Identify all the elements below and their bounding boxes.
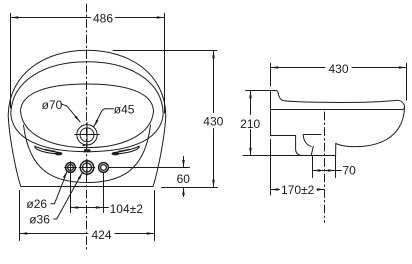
arrow 210 top	[249, 91, 252, 99]
side view belly curve	[336, 107, 405, 147]
svg-text:ø45: ø45	[114, 103, 135, 117]
leader ø45	[94, 109, 114, 127]
bowl rim outer oval	[11, 62, 163, 152]
dim 60 arrow tails	[183, 157, 185, 197]
arrow 104 left	[71, 206, 79, 209]
leader ø36	[54, 172, 83, 219]
dim 170 ext left	[270, 140, 272, 196]
arrows	[11, 16, 407, 235]
svg-text:104±2: 104±2	[110, 202, 144, 216]
leader ø26	[51, 171, 67, 204]
arrow 430 side right	[399, 66, 407, 69]
svg-text:430: 430	[328, 62, 348, 76]
arrow 486 left	[11, 16, 19, 19]
arrow 104 right	[96, 206, 104, 209]
dim 70 ext lines	[313, 156, 336, 178]
drain outer circle ø70	[77, 125, 97, 145]
arrow leader ø26	[63, 171, 67, 178]
overflow trapezoid mark	[83, 149, 91, 152]
arrow 486 right	[157, 16, 165, 19]
svg-text:ø26: ø26	[26, 197, 47, 211]
centerline side view	[324, 112, 326, 223]
side view top step and rim	[271, 91, 405, 107]
dim 424 ext lines	[20, 191, 155, 241]
dim 430 side ext left	[270, 63, 272, 86]
dim 486 extension right	[164, 13, 166, 113]
leader ø70	[61, 104, 80, 122]
arrow 424 left	[20, 232, 28, 235]
bowl rim inner oval	[21, 84, 154, 148]
small triangle mark	[82, 144, 85, 146]
left soap crescent	[35, 146, 60, 153]
faucet hole left	[66, 163, 76, 173]
arrow 430 front top	[212, 51, 215, 59]
dimension texts	[26, 11, 356, 242]
arrow 430 side left	[271, 66, 279, 69]
svg-text:70: 70	[342, 164, 356, 178]
dim 104 line	[71, 207, 109, 209]
pipe bottom	[311, 155, 336, 157]
dim 170 line	[271, 189, 325, 191]
dim 430 side ext right	[406, 63, 408, 100]
svg-text:ø36: ø36	[29, 212, 50, 226]
dim 104 ext lines	[71, 173, 104, 213]
side view left wall	[270, 91, 272, 136]
svg-text:170±2: 170±2	[281, 183, 315, 197]
apron front curve	[24, 125, 151, 183]
arrow 210 bottom	[249, 148, 252, 156]
dim 430 front ext bottom	[161, 187, 217, 189]
centerline front view	[86, 4, 88, 252]
arrow 430 front bottom	[212, 180, 215, 188]
svg-text:424: 424	[91, 228, 111, 242]
dim 430 front line	[213, 51, 215, 188]
dim 210 ext top	[246, 90, 270, 92]
svg-text:60: 60	[177, 172, 191, 186]
arrow leader ø36	[78, 172, 83, 179]
arrow 70 left	[313, 169, 321, 172]
dim 60 ext top (leader from right hole)	[109, 167, 190, 169]
dim 486 extension left	[10, 13, 12, 108]
svg-text:486: 486	[93, 11, 113, 25]
svg-text:430: 430	[203, 115, 223, 129]
drain pipe	[311, 143, 336, 155]
dim 210 ext bottom	[243, 155, 311, 157]
arrow 170 left	[271, 188, 279, 191]
svg-text:ø70: ø70	[42, 98, 63, 112]
trap outer shoulder	[296, 136, 311, 156]
arrow 60 top	[182, 160, 185, 168]
side view wall bottom	[271, 135, 296, 137]
arrow leader ø45	[94, 120, 99, 127]
dim 430 side line	[271, 67, 407, 69]
faucet hole right	[99, 163, 109, 173]
arrow leader ø70	[75, 116, 81, 123]
dim 424 line	[20, 233, 155, 235]
right soap crescent	[114, 146, 139, 153]
faucet hole center	[80, 161, 93, 174]
arrow 170 right	[317, 188, 325, 191]
dim 430 front ext top	[113, 50, 217, 52]
side view under-rim line	[271, 107, 405, 110]
arrow 60 bottom	[182, 188, 185, 196]
drain cross	[75, 122, 100, 147]
trap inner shoulder	[303, 135, 321, 147]
arrow 424 right	[147, 232, 155, 235]
drain inner circle ø45	[80, 128, 94, 142]
dim 210 line	[250, 91, 252, 156]
basin front view outline	[8, 50, 166, 186]
arrow 70 right	[328, 169, 336, 172]
svg-text:210: 210	[240, 117, 260, 131]
dim 486 line	[11, 17, 165, 19]
dim 70 line	[313, 170, 342, 172]
